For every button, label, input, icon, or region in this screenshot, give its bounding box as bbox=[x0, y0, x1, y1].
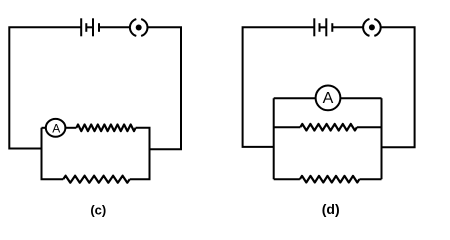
svg-text:(d): (d) bbox=[322, 201, 340, 217]
svg-text:A: A bbox=[52, 122, 60, 136]
svg-text:A: A bbox=[323, 90, 334, 107]
svg-text:(c): (c) bbox=[90, 202, 106, 217]
